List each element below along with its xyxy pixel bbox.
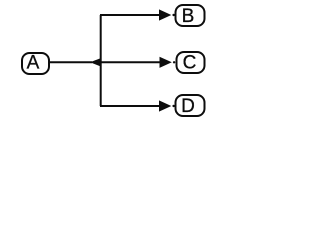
flowchart: A fans out to B, C, D [0,0,212,124]
arrowhead into D [159,100,171,111]
wire A to junction [49,61,92,63]
arrowhead into C [160,57,172,68]
svg-text:A: A [27,53,40,74]
node B [176,5,205,27]
arrowhead into B [159,9,171,20]
wire vertical bus [100,15,102,106]
svg-text:B: B [182,6,195,27]
node A [22,53,49,74]
wire bus to B [100,14,162,16]
svg-text:C: C [183,52,197,73]
arrowhead at junction pointing left [90,58,100,66]
node D [176,95,205,117]
wire bus to D [100,105,162,107]
wire bus to C [101,61,162,63]
svg-text:D: D [181,96,195,117]
node C [177,52,205,73]
